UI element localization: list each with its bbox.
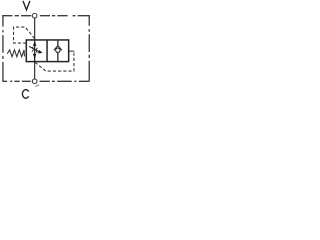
flow arrow down: [33, 54, 36, 59]
flow arrow up: [33, 41, 36, 46]
wire valve to C port: [34, 62, 36, 80]
restrictor arcs: [32, 47, 38, 53]
check valve line bottom: [57, 52, 59, 61]
wire V port to valve: [34, 18, 36, 40]
envelope boundary top edge (dash-dot): [2, 15, 89, 17]
envelope boundary bottom edge (dash-dot): [2, 80, 89, 82]
adjustability arrow: [29, 46, 39, 51]
cursor mark near C port: [35, 85, 39, 87]
label C: [22, 90, 28, 99]
valve body (two squares): [26, 40, 68, 62]
envelope boundary left edge (dash-dot): [2, 15, 4, 81]
pilot line downstream (dashed): [35, 51, 74, 71]
label V: [23, 1, 30, 10]
pilot line upstream (dashed): [14, 27, 35, 43]
check valve line top: [57, 40, 59, 46]
C port circle: [32, 79, 37, 84]
spring: [7, 50, 24, 57]
check valve ball: [56, 48, 60, 52]
envelope boundary right edge (dash-dot): [88, 15, 90, 81]
check valve seat: [54, 46, 62, 51]
V port circle: [32, 13, 37, 18]
throttle flow line: [34, 40, 36, 62]
